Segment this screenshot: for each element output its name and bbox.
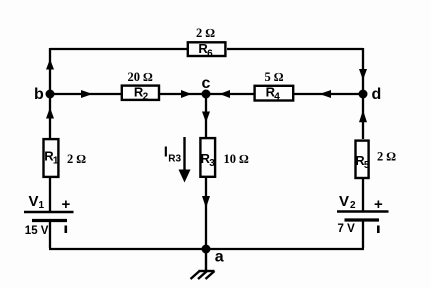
battery V1 positive plate bbox=[24, 211, 74, 214]
wire R3 to node a bbox=[205, 178, 207, 249]
wire b to R2 bbox=[50, 93, 121, 95]
current arrow up on left rail above b bbox=[46, 59, 54, 70]
svg-text:1: 1 bbox=[53, 155, 59, 166]
battery V2 positive plate bbox=[337, 210, 389, 213]
battery V1 minus mark bbox=[65, 226, 68, 234]
current arrow down between R3 and a bbox=[202, 196, 210, 208]
current arrow left between c and R4 bbox=[220, 90, 231, 98]
battery V2 minus mark bbox=[377, 226, 380, 234]
node b junction dot bbox=[46, 90, 55, 99]
resistor R1 box bbox=[44, 139, 59, 177]
resistor R2 box bbox=[122, 86, 159, 100]
ground symbol bbox=[191, 271, 215, 279]
wire V1 minus plate to bottom corner bbox=[49, 221, 51, 248]
svg-text:5: 5 bbox=[364, 160, 370, 171]
svg-text:2 Ω: 2 Ω bbox=[377, 150, 396, 164]
svg-text:d: d bbox=[372, 86, 382, 103]
wire c to R4 bbox=[206, 93, 254, 95]
svg-text:b: b bbox=[34, 86, 44, 103]
svg-text:2: 2 bbox=[350, 200, 356, 211]
svg-text:3: 3 bbox=[209, 158, 215, 169]
resistor R5 box bbox=[356, 141, 369, 178]
svg-text:10 Ω: 10 Ω bbox=[224, 152, 250, 166]
svg-text:V: V bbox=[29, 193, 39, 210]
wire R5 to V2 plus plate bbox=[362, 179, 364, 211]
wire R4 to d bbox=[294, 93, 363, 95]
current arrow right between b and R2 bbox=[81, 90, 93, 98]
node d junction dot bbox=[359, 90, 368, 99]
svg-text:7 V: 7 V bbox=[338, 223, 356, 235]
current arrow down between c and R3 bbox=[202, 112, 210, 123]
wire V2 minus plate to bottom corner bbox=[362, 220, 364, 248]
node a junction dot bbox=[202, 245, 211, 254]
current arrow down above d bbox=[359, 69, 367, 80]
wire left rail upper (b to top corner) bbox=[49, 48, 51, 94]
wire top left segment bbox=[50, 48, 187, 50]
svg-text:6: 6 bbox=[207, 48, 213, 59]
current arrow I_R3 bbox=[183, 137, 185, 172]
resistor R4 box bbox=[255, 86, 294, 101]
wire d to R5 bbox=[362, 94, 364, 139]
ground stub wire bbox=[205, 249, 207, 271]
wire R2 to c bbox=[160, 93, 206, 95]
battery V1 negative plate bbox=[32, 219, 67, 222]
wire b to R1 bbox=[49, 94, 51, 138]
resistor R3 box bbox=[200, 138, 215, 177]
svg-text:4: 4 bbox=[274, 91, 280, 102]
current arrow right between R2 and c bbox=[181, 90, 192, 98]
svg-text:15 V: 15 V bbox=[25, 225, 49, 237]
svg-text:1: 1 bbox=[39, 200, 45, 211]
node c junction dot bbox=[202, 90, 211, 99]
wire bottom rail bbox=[49, 248, 364, 250]
svg-text:20 Ω: 20 Ω bbox=[128, 70, 154, 84]
svg-text:2: 2 bbox=[143, 91, 149, 102]
resistor R6 box bbox=[188, 42, 226, 56]
wire R1 to V1 plus plate bbox=[49, 178, 51, 212]
svg-text:a: a bbox=[215, 248, 224, 265]
svg-text:+: + bbox=[62, 196, 71, 213]
svg-text:V: V bbox=[339, 193, 349, 210]
svg-text:2 Ω: 2 Ω bbox=[196, 26, 215, 40]
battery V2 negative plate bbox=[345, 218, 380, 221]
current arrow up between R5 and d bbox=[359, 110, 367, 122]
wire top right segment bbox=[227, 48, 363, 50]
current arrow left between R4 and d bbox=[320, 90, 332, 98]
current arrow up between R1 and b bbox=[46, 108, 54, 119]
wire c to R3 bbox=[205, 94, 207, 137]
svg-text:5 Ω: 5 Ω bbox=[265, 70, 284, 84]
svg-text:+: + bbox=[374, 196, 383, 213]
svg-text:2 Ω: 2 Ω bbox=[67, 152, 86, 166]
wire right rail upper (top corner to d) bbox=[362, 48, 364, 94]
svg-text:R3: R3 bbox=[168, 154, 181, 165]
svg-text:c: c bbox=[202, 75, 211, 92]
